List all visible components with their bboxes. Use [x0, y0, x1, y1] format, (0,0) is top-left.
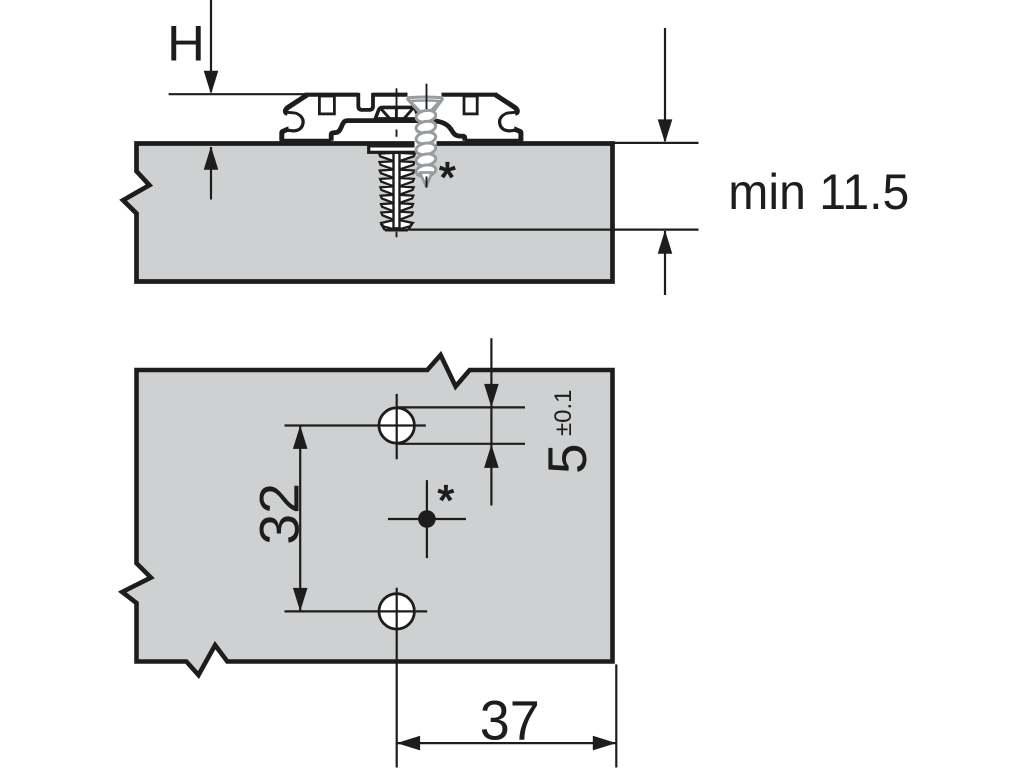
dimension 37: dimension line with arrows	[397, 742, 616, 744]
board side view (cross-section of cabinet panel)	[123, 144, 612, 282]
white gap where wood screw crosses board surface line	[415, 139, 437, 148]
mounting plate: top surface middle segment	[373, 93, 408, 97]
wood screw centreline upper segment	[426, 84, 428, 116]
dimension 32: dimension line with arrows	[299, 426, 301, 611]
svg-text:5: 5	[536, 443, 598, 474]
mounting plate: right foot on board	[465, 139, 523, 143]
dimension 37: right extension line at board edge	[615, 664, 617, 767]
wood screw grey helical threads	[415, 109, 436, 124]
upper hole vertical centreline	[396, 394, 398, 459]
svg-text:37: 37	[480, 690, 540, 752]
upper system screw hole	[379, 408, 414, 443]
euro screw shank	[394, 153, 400, 229]
dimension 5: lower tangent extension line	[397, 443, 525, 445]
svg-text:32: 32	[248, 483, 310, 545]
wood screw (alternative fixing, grey) head	[407, 98, 443, 114]
board plan view with break zigzags	[122, 355, 612, 675]
svg-text:H: H	[167, 16, 205, 72]
hinge cup centre point marker	[418, 510, 436, 528]
upper hole horizontal centreline / 32 extension	[285, 424, 426, 426]
dimension 5: dimension line and arrows	[490, 338, 492, 505]
euro screw head (sectioned, hatched)	[375, 107, 419, 119]
dimension H: dimension line with down arrow	[210, 0, 212, 92]
mounting plate: right hook inner white channel	[503, 115, 516, 128]
svg-text:*: *	[439, 154, 456, 202]
centre point vertical centreline	[426, 480, 428, 558]
dimension H: up arrow at board surface	[210, 147, 212, 200]
svg-text:min 11.5: min 11.5	[728, 164, 909, 220]
euro screw threads	[379, 153, 415, 230]
mounting plate: left wing chamfer and hook	[282, 95, 308, 141]
mounting plate: top surface left segment	[305, 93, 359, 97]
euro screw head hatch lines	[381, 109, 390, 119]
svg-text:±0.1: ±0.1	[550, 389, 577, 436]
dimension min 11.5: dimension line and arrows	[664, 28, 666, 141]
dimension min 11.5: upper extension line (board surface)	[615, 142, 699, 144]
wood screw grey tip	[420, 173, 432, 187]
euro screw flange washer	[369, 146, 424, 152]
dimension H: extension line at plate top	[169, 93, 307, 95]
mounting plate: left foot on board	[280, 139, 332, 143]
centre point horizontal centreline	[388, 518, 466, 520]
mounting plate: cam slot notch in top surface	[358, 93, 373, 110]
lower hole horizontal centreline / 32 extension	[285, 610, 428, 612]
mounting plate: right fixing slot (section)	[464, 96, 477, 114]
mounting plate: right wing chamfer and hook	[495, 95, 521, 141]
lower system screw hole	[379, 594, 414, 629]
dimension 5: upper tangent extension line	[397, 406, 525, 408]
mounting plate: left fixing slot (section)	[319, 96, 334, 114]
euro screw tip	[385, 229, 408, 232]
euro screw centreline (below tip)	[396, 232, 398, 237]
mounting plate: left hook inner white channel	[287, 115, 300, 128]
dimension min 11.5: lower extension line (drilling depth)	[409, 229, 699, 231]
mounting plate: centre boss outline	[331, 121, 465, 141]
svg-text:*: *	[438, 477, 455, 525]
lower hole vertical centreline / 37 extension	[396, 588, 398, 768]
euro screw centreline (upper)	[396, 88, 398, 123]
mounting plate: top surface right segment	[442, 93, 498, 97]
wood screw centreline lower segment	[426, 177, 428, 188]
wood screw head inner funnel walls	[411, 102, 422, 113]
